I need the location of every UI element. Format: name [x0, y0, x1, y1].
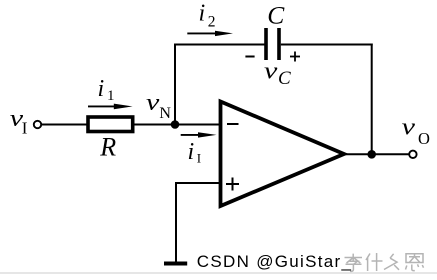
resistor R [88, 117, 133, 132]
wire input terminal to resistor [42, 124, 88, 126]
svg-text:v: v [264, 57, 278, 84]
capacitor minus polarity sign [245, 56, 254, 58]
label vN [146, 89, 171, 122]
label i2 [199, 1, 216, 31]
node vN junction dot [171, 120, 180, 129]
wire feedback right down to output node [371, 44, 373, 155]
svg-text:v: v [402, 113, 416, 140]
svg-text:i: i [188, 139, 195, 165]
terminal vO [409, 151, 416, 158]
terminal vI [34, 121, 41, 128]
label i1 [98, 76, 115, 104]
ground [164, 262, 187, 266]
watermark separator line [0, 272, 437, 273]
wire down to ground [175, 182, 177, 262]
op-amp inverting input minus sign [227, 123, 239, 125]
op-amp non-inverting input plus sign [226, 178, 239, 191]
wire non-inverting input [176, 182, 221, 184]
svg-text:v: v [146, 89, 160, 116]
svg-text:CSDN @GuiStar_: CSDN @GuiStar_ [197, 252, 352, 271]
op-amp U1 [221, 102, 345, 207]
wire op-amp output to terminal [344, 153, 409, 155]
watermark glyph me [384, 254, 399, 270]
svg-text:C: C [278, 68, 291, 89]
wire resistor to op-amp inverting input [133, 124, 221, 126]
current arrow iI [181, 132, 217, 137]
wire feedback top left to capacitor [174, 44, 265, 46]
label vI [10, 105, 28, 138]
capacitor C plates [264, 28, 281, 60]
watermark glyph li [345, 254, 363, 272]
label iI [188, 139, 202, 166]
svg-text:I: I [22, 119, 28, 138]
current arrow i2 [187, 31, 233, 36]
watermark glyph shen [366, 253, 383, 271]
svg-text:N: N [159, 105, 171, 122]
svg-text:C: C [267, 1, 285, 30]
svg-text:i: i [199, 1, 206, 27]
svg-text:i: i [98, 76, 105, 102]
svg-text:O: O [418, 129, 430, 148]
svg-text:1: 1 [107, 88, 115, 104]
svg-text:R: R [99, 133, 116, 162]
svg-text:2: 2 [208, 14, 216, 31]
watermark glyph en [406, 254, 424, 271]
capacitor plus polarity sign [290, 52, 300, 62]
svg-text:I: I [197, 151, 201, 166]
label vC [264, 57, 291, 89]
current arrow i1 [88, 104, 133, 110]
output node junction dot [367, 150, 376, 159]
label vO [402, 113, 430, 147]
wire node vN up to feedback branch [174, 44, 176, 126]
wire capacitor to feedback top right [281, 44, 373, 46]
